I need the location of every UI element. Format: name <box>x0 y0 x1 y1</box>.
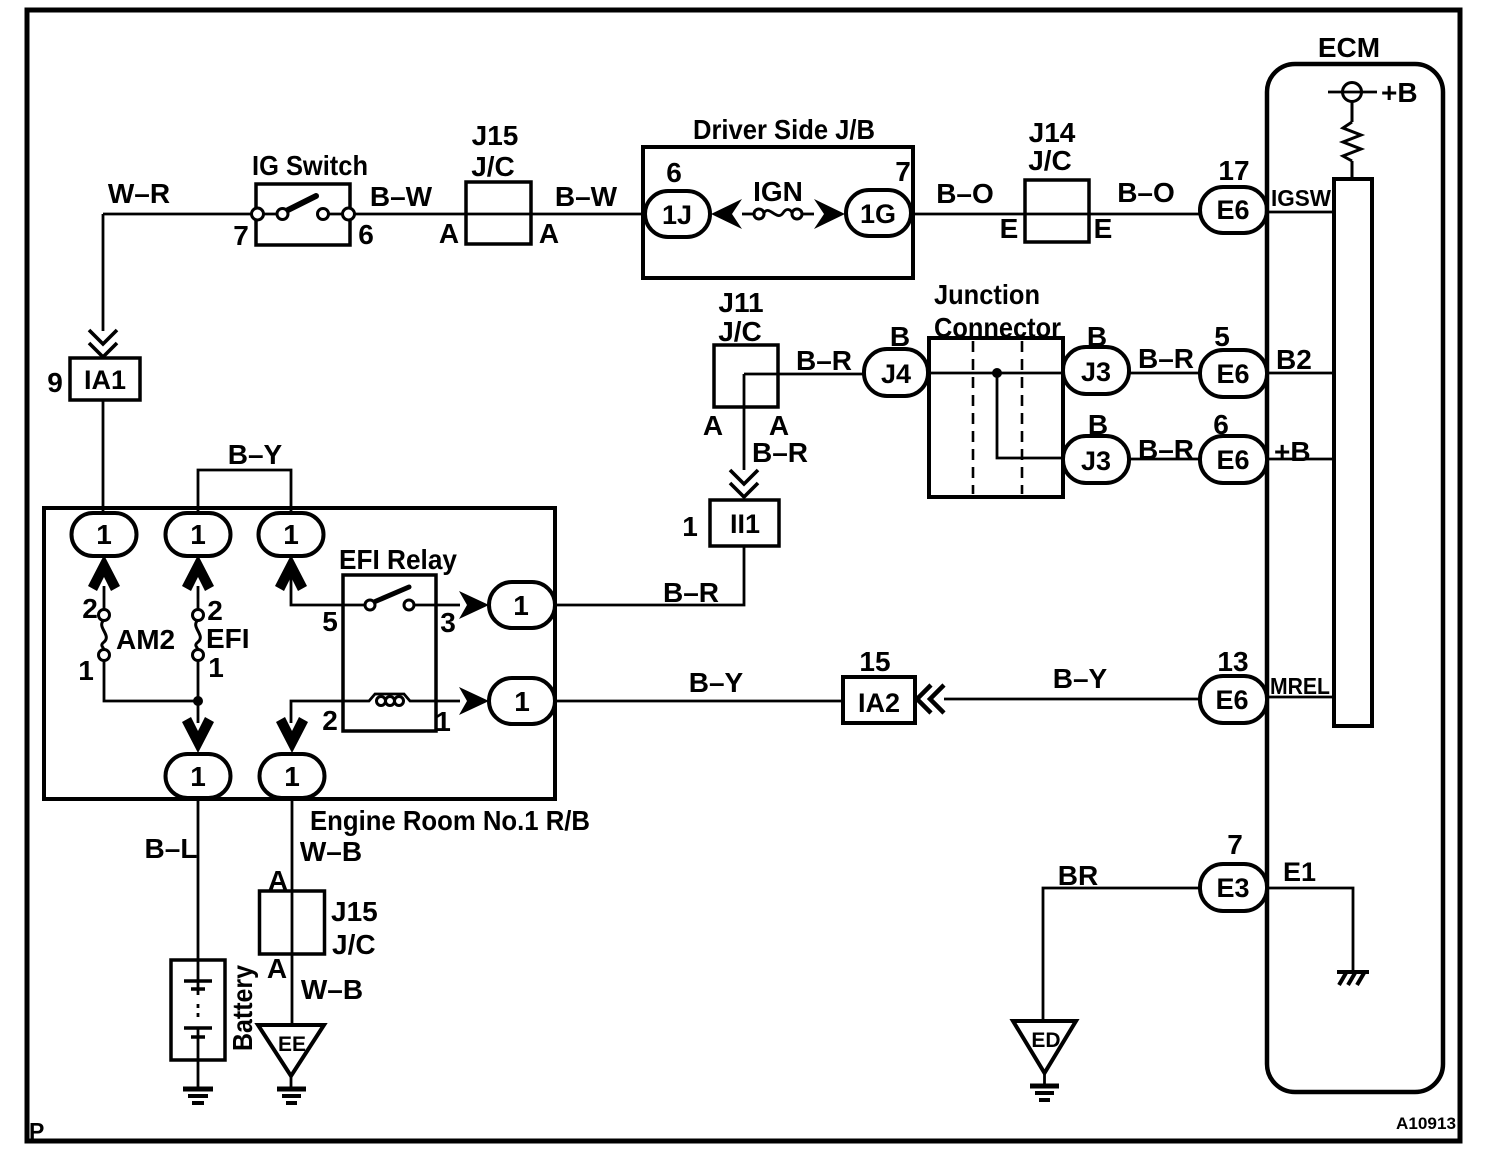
wire junction dot down and right <box>997 373 1063 458</box>
svg-text:1: 1 <box>435 706 451 737</box>
battery plates <box>184 979 212 983</box>
svg-text:J/C: J/C <box>332 929 376 960</box>
svg-text:ECM: ECM <box>1318 32 1380 63</box>
R/B bottom oval 1 (EE) <box>260 754 325 798</box>
svg-text:B–Y: B–Y <box>1053 663 1108 694</box>
svg-text:J/C: J/C <box>471 151 515 182</box>
wire B-O from 1G to E6 <box>911 213 1200 216</box>
relay coil <box>343 694 436 701</box>
IG Switch terminal 7 <box>252 208 264 220</box>
wire oval3 down to relay pin 5 <box>291 556 366 605</box>
battery box <box>171 960 225 1060</box>
svg-text:1J: 1J <box>662 200 692 230</box>
connector 1J <box>645 191 710 237</box>
svg-text:B–W: B–W <box>370 181 433 212</box>
svg-text:Battery: Battery <box>227 965 258 1051</box>
svg-text:B–W: B–W <box>555 181 618 212</box>
svg-text:17: 17 <box>1218 155 1249 186</box>
wire II1 down and left to relay output oval <box>555 546 744 605</box>
relay switch contacts <box>365 600 375 610</box>
svg-text:J15: J15 <box>331 896 378 927</box>
junction dot AM2/EFI <box>193 696 203 706</box>
wire W-R horizontal to IG switch <box>103 213 258 216</box>
connector IA2 <box>843 677 915 723</box>
junction connector J11 box <box>714 345 778 407</box>
wire inside J11 elbow down <box>743 374 746 470</box>
svg-text:E: E <box>1000 213 1019 244</box>
IG Switch box <box>256 184 350 245</box>
wire B-Y from E6 to IA2 <box>944 698 1200 701</box>
svg-text:IG Switch: IG Switch <box>252 150 368 181</box>
chassis ground inside ECM <box>1337 970 1369 974</box>
svg-text:A: A <box>439 218 459 249</box>
svg-text:Junction: Junction <box>934 279 1040 310</box>
arrow into relay output oval bottom <box>459 687 489 715</box>
svg-text:6: 6 <box>358 219 374 250</box>
svg-text:J3: J3 <box>1081 357 1111 387</box>
svg-text:B–R: B–R <box>796 345 852 376</box>
svg-text:7: 7 <box>895 156 911 187</box>
resistor inside ECM <box>1343 122 1361 161</box>
svg-text:1: 1 <box>514 686 530 717</box>
connector E6 pin 6 <box>1200 436 1267 483</box>
svg-text:B–Y: B–Y <box>228 439 283 470</box>
fuse AM2 <box>99 610 110 621</box>
wire EFI fuse down to oval <box>197 660 200 723</box>
svg-text:BR: BR <box>1058 860 1098 891</box>
connector E6 pin 5 <box>1200 350 1267 397</box>
arrow up into oval 1 AM2 <box>88 555 120 591</box>
svg-text:J/C: J/C <box>718 316 762 347</box>
svg-text:B2: B2 <box>1276 344 1312 375</box>
IG Switch inner contact left <box>277 209 288 220</box>
svg-text:J11: J11 <box>718 287 763 318</box>
dashed partition lines <box>973 341 1022 494</box>
wire IA1 down to R/B oval 1 <box>102 400 105 513</box>
wire AM2 to junction dot <box>104 660 198 701</box>
wire W-R vertical down to IA1 <box>102 214 105 331</box>
svg-text:1: 1 <box>513 590 529 621</box>
svg-text:B–R: B–R <box>752 437 808 468</box>
svg-text:B–O: B–O <box>936 178 994 209</box>
svg-text:5: 5 <box>1214 321 1230 352</box>
junction connector J14 box <box>1025 180 1089 242</box>
svg-text:EFI: EFI <box>206 623 250 654</box>
svg-text:1: 1 <box>284 761 300 792</box>
junction connector box <box>929 338 1063 497</box>
svg-text:1: 1 <box>208 652 224 683</box>
connector J3 row B2 <box>1063 347 1129 394</box>
svg-text:1: 1 <box>283 519 299 550</box>
ground ED triangle <box>1013 1021 1076 1073</box>
connector II1 <box>710 500 779 546</box>
IG Switch terminal 6 <box>343 208 355 220</box>
wire arrow to EFI fuse <box>197 586 200 610</box>
svg-text:1G: 1G <box>860 199 896 229</box>
svg-text:B–L: B–L <box>145 833 198 864</box>
svg-text:AM2: AM2 <box>116 624 175 655</box>
wire B2 pin into ECM <box>1267 372 1336 375</box>
svg-text:+B: +B <box>1274 436 1311 467</box>
junction dot <box>992 368 1002 378</box>
fuse IGN symbol <box>754 209 764 219</box>
R/B bottom oval 1 (battery) <box>166 754 231 798</box>
svg-text:W–B: W–B <box>301 974 363 1005</box>
EFI Relay box <box>343 575 436 731</box>
IG Switch inner contact right <box>318 209 329 220</box>
svg-text:2: 2 <box>82 593 98 624</box>
svg-text:A: A <box>267 953 287 984</box>
svg-text:1: 1 <box>682 511 698 542</box>
wire J3 to E6 row +B <box>1129 458 1200 461</box>
ground EE triangle <box>258 1025 324 1076</box>
svg-text:1: 1 <box>190 761 206 792</box>
wire +B pin into ECM <box>1267 458 1336 461</box>
svg-text:IA1: IA1 <box>84 365 126 395</box>
ECM connector bar <box>1334 179 1372 726</box>
wire W-B to EE ground <box>291 798 294 1023</box>
arrow into relay output oval top <box>459 591 489 619</box>
svg-text:E1: E1 <box>1283 857 1316 887</box>
IG Switch lever <box>288 196 316 210</box>
connector 1G <box>846 190 911 236</box>
wire J3 to E6 row B2 <box>1129 372 1200 375</box>
Driver Side J/B box <box>643 147 913 278</box>
wire relay switch to output oval <box>414 604 460 607</box>
wire J11 to J4 <box>744 373 866 376</box>
fuse IGN wire <box>742 213 753 216</box>
svg-text:E: E <box>1094 213 1113 244</box>
svg-text:3: 3 <box>440 607 456 638</box>
wire MREL pin into ECM <box>1267 696 1336 699</box>
arrow chevrons into II1 <box>730 470 758 497</box>
wire B-L battery feed <box>197 798 200 981</box>
arrow up into oval 1 relay <box>275 555 307 591</box>
svg-text:7: 7 <box>1227 829 1243 860</box>
svg-text:IA2: IA2 <box>858 688 900 718</box>
svg-text:E6: E6 <box>1216 445 1249 475</box>
wire relay pin 2 to bottom oval <box>291 701 343 723</box>
svg-text:2: 2 <box>207 595 223 626</box>
arrow down into oval 1 (battery feed) <box>182 717 214 753</box>
svg-text:7: 7 <box>233 220 249 251</box>
svg-text:+B: +B <box>1381 77 1418 108</box>
wire +B to resistor <box>1351 101 1354 122</box>
wire relay coil to output oval <box>436 700 460 703</box>
svg-text:J4: J4 <box>881 359 911 389</box>
R/B terminal oval 1 (AM2 top) <box>72 513 137 556</box>
ECM body <box>1267 64 1443 1092</box>
svg-text:E6: E6 <box>1215 685 1248 715</box>
wire B-Y relay oval to IA2 <box>555 700 843 703</box>
wire resistor to bar <box>1351 161 1354 179</box>
junction connector J15 top box <box>466 182 531 244</box>
svg-text:1: 1 <box>96 519 112 550</box>
svg-text:6: 6 <box>666 157 682 188</box>
svg-text:B–O: B–O <box>1117 177 1175 208</box>
svg-text:5: 5 <box>322 606 338 637</box>
svg-text:ED: ED <box>1031 1029 1060 1052</box>
wire B-Y loop between ovals <box>198 470 291 514</box>
svg-text:B–R: B–R <box>1138 434 1194 465</box>
svg-text:E6: E6 <box>1216 359 1249 389</box>
wire B-W from IG switch to Driver Side J/B <box>354 213 646 216</box>
R/B terminal oval 1 (EFI top) <box>166 513 231 556</box>
svg-text:E3: E3 <box>1216 873 1249 903</box>
svg-text:9: 9 <box>47 367 63 398</box>
svg-text:Driver Side J/B: Driver Side J/B <box>693 114 875 145</box>
wire BR from ED to E3 <box>1043 888 1200 1022</box>
R/B terminal oval 1 (relay top) <box>259 513 324 556</box>
svg-text:B–R: B–R <box>663 577 719 608</box>
arrow chevrons into IA1 <box>89 330 117 357</box>
svg-text:IGSW: IGSW <box>1271 185 1331 211</box>
svg-text:EE: EE <box>278 1033 306 1056</box>
ground symbol below EE <box>277 1087 306 1092</box>
connector E6 pin 17 <box>1200 187 1267 233</box>
svg-text:P: P <box>29 1118 44 1144</box>
svg-text:A: A <box>539 218 559 249</box>
wire IGSW pin into ECM <box>1267 211 1336 214</box>
connector E3 <box>1200 864 1267 911</box>
IG Switch internal wires <box>258 213 348 216</box>
arrow chevrons into IA2 <box>917 685 944 713</box>
ground symbol below battery <box>183 1087 213 1092</box>
wire ED to ground <box>1043 1073 1046 1084</box>
svg-text:IGN: IGN <box>753 176 803 207</box>
svg-text:W–B: W–B <box>300 836 362 867</box>
svg-text:A10913: A10913 <box>1396 1114 1456 1133</box>
svg-text:J14: J14 <box>1029 117 1076 148</box>
arrow into 1J <box>711 199 742 229</box>
connector J4 <box>864 349 928 396</box>
connector E6 pin 13 <box>1200 676 1267 723</box>
arrow down into oval 1 (EE feed) <box>276 717 308 753</box>
svg-text:B–R: B–R <box>1138 343 1194 374</box>
wire EE to ground <box>290 1076 293 1087</box>
connector J3 row +B <box>1063 436 1129 483</box>
wire through junction connector row B2 <box>928 372 1063 375</box>
connector IA1 <box>70 358 140 400</box>
svg-text:15: 15 <box>859 646 890 677</box>
svg-text:1: 1 <box>190 519 206 550</box>
svg-text:1: 1 <box>78 655 94 686</box>
arrow into 1G <box>814 199 845 229</box>
svg-text:J15: J15 <box>472 120 519 151</box>
svg-text:2: 2 <box>322 705 338 736</box>
fuse EFI <box>193 610 204 621</box>
svg-text:13: 13 <box>1217 646 1248 677</box>
svg-text:B–Y: B–Y <box>689 667 744 698</box>
+B terminal circle <box>1328 91 1377 94</box>
wire E1 pin to chassis ground <box>1267 888 1353 970</box>
svg-text:MREL: MREL <box>1270 673 1330 699</box>
svg-text:II1: II1 <box>730 509 760 539</box>
wire arrow to AM2 fuse <box>103 586 106 610</box>
svg-text:A: A <box>703 410 723 441</box>
ground symbol below ED <box>1030 1084 1059 1089</box>
relay output oval bottom <box>489 678 555 724</box>
junction connector J15 bottom box <box>260 891 325 954</box>
wire battery to ground <box>197 1042 200 1087</box>
svg-text:J/C: J/C <box>1028 145 1072 176</box>
svg-text:W–R: W–R <box>108 178 170 209</box>
svg-text:J3: J3 <box>1081 446 1111 476</box>
arrow up into oval 1 EFI <box>182 555 214 591</box>
svg-text:EFI Relay: EFI Relay <box>339 544 457 575</box>
relay output oval top <box>489 582 555 628</box>
Engine Room No.1 R/B box <box>44 508 555 799</box>
svg-text:Engine Room No.1 R/B: Engine Room No.1 R/B <box>310 805 590 836</box>
svg-text:E6: E6 <box>1216 195 1249 225</box>
relay switch lever <box>374 587 409 602</box>
